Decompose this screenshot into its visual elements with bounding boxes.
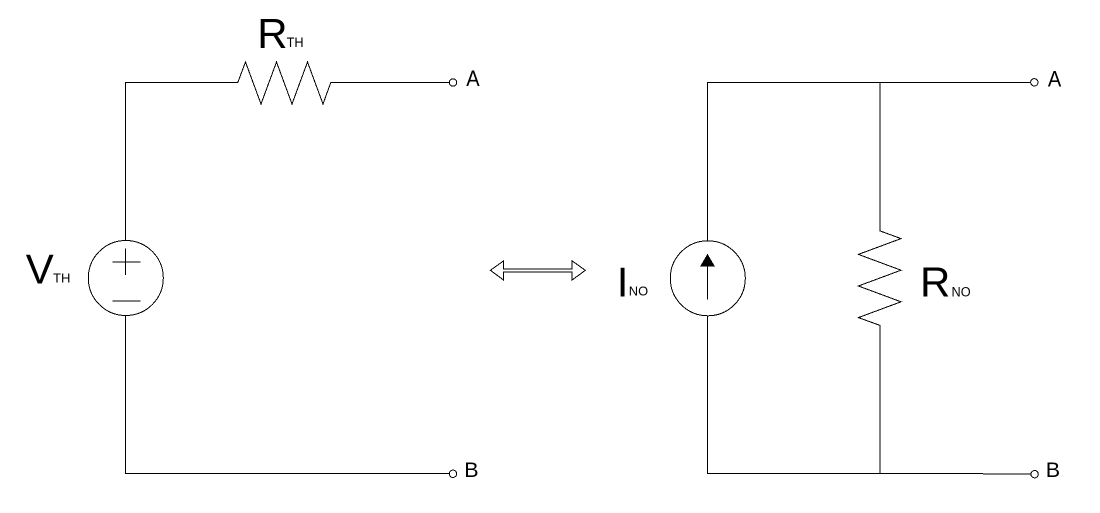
svg-text:A: A bbox=[466, 66, 480, 91]
svg-text:B: B bbox=[464, 458, 478, 482]
svg-text:R: R bbox=[920, 258, 950, 305]
svg-text:B: B bbox=[1046, 458, 1060, 482]
svg-text:I: I bbox=[617, 259, 629, 306]
svg-text:R: R bbox=[257, 10, 287, 57]
svg-text:TH: TH bbox=[53, 271, 70, 286]
svg-text:V: V bbox=[26, 246, 54, 293]
svg-text:TH: TH bbox=[287, 35, 304, 50]
svg-text:NO: NO bbox=[629, 284, 648, 299]
svg-text:A: A bbox=[1048, 67, 1062, 92]
svg-text:NO: NO bbox=[952, 284, 971, 299]
